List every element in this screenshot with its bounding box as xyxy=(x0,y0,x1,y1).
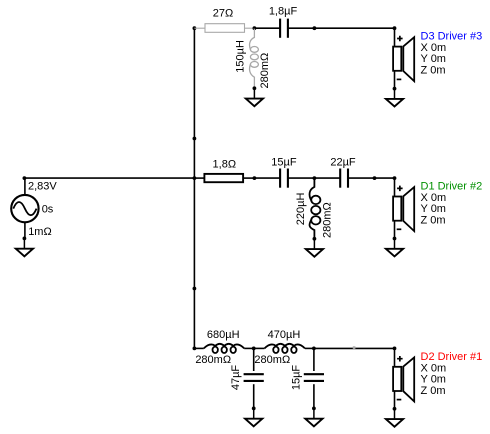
svg-text:Z 0m: Z 0m xyxy=(421,65,446,77)
ground (D3) xyxy=(386,87,403,107)
inductor 150µH (gray) xyxy=(250,28,259,88)
inductor 680µH xyxy=(194,344,253,353)
wire to D2 xyxy=(314,347,395,349)
ground (47µF) xyxy=(245,407,262,427)
node bus a xyxy=(193,137,197,141)
node at source top xyxy=(23,176,27,180)
speaker D3 xyxy=(393,26,415,88)
svg-text:470µH: 470µH xyxy=(268,329,301,341)
speaker D1 xyxy=(393,176,415,238)
svg-text:Z 0m: Z 0m xyxy=(421,215,446,227)
inductor 220µH xyxy=(310,178,321,239)
svg-text:Z 0m: Z 0m xyxy=(421,385,446,397)
svg-text:680µH: 680µH xyxy=(207,329,240,341)
svg-text:D1 Driver #2: D1 Driver #2 xyxy=(421,181,483,193)
svg-text:280mΩ: 280mΩ xyxy=(259,53,271,89)
svg-text:15µF: 15µF xyxy=(271,156,297,168)
capacitor 15µF xyxy=(254,169,314,188)
node between coils xyxy=(252,347,256,351)
wire source to bus xyxy=(24,177,194,179)
node bus top xyxy=(193,26,197,30)
ground (15µF) xyxy=(305,407,322,427)
node after 1,8µF xyxy=(313,26,317,30)
ground (D2) xyxy=(386,407,403,427)
svg-text:280mΩ: 280mΩ xyxy=(195,354,231,366)
node bus c xyxy=(193,287,197,291)
svg-text:15µF: 15µF xyxy=(290,365,302,391)
svg-text:D2 Driver #1: D2 Driver #1 xyxy=(421,351,483,363)
svg-text:150µH: 150µH xyxy=(234,40,246,73)
svg-text:1,8µF: 1,8µF xyxy=(269,6,298,18)
node bus bottom xyxy=(193,347,197,351)
svg-text:0s: 0s xyxy=(42,204,54,216)
node bus b xyxy=(193,176,197,180)
resistor 1,8Ω xyxy=(194,174,254,182)
wire to D1 xyxy=(375,177,395,179)
node after 470µH xyxy=(312,347,316,351)
node after 27Ω xyxy=(253,26,257,30)
svg-text:1,8Ω: 1,8Ω xyxy=(213,159,237,171)
wire main bus xyxy=(193,28,195,348)
ground (D1) xyxy=(386,237,403,257)
svg-text:220µH: 220µH xyxy=(295,193,307,226)
voltage source V1 xyxy=(11,178,38,238)
svg-text:280mΩ: 280mΩ xyxy=(321,202,333,238)
inductor 470µH xyxy=(254,344,314,353)
svg-text:280mΩ: 280mΩ xyxy=(254,354,290,366)
wire to D3 xyxy=(314,27,394,29)
capacitor 15µF shunt xyxy=(304,348,324,408)
svg-text:2,83V: 2,83V xyxy=(28,180,57,192)
ground (220µH) xyxy=(306,237,323,257)
speaker D2 xyxy=(393,347,415,409)
svg-text:Y 0m: Y 0m xyxy=(421,53,446,65)
wire handle mark xyxy=(353,346,356,349)
svg-text:Y 0m: Y 0m xyxy=(421,373,446,385)
node after 22µF xyxy=(373,176,377,180)
svg-text:D3 Driver #3: D3 Driver #3 xyxy=(421,31,483,43)
svg-text:47µF: 47µF xyxy=(230,365,242,391)
ground (150µH) xyxy=(246,86,263,106)
node after 1,8Ω xyxy=(253,176,257,180)
capacitor 1,8µF xyxy=(254,19,314,38)
ground (source) xyxy=(16,237,33,257)
capacitor 22µF xyxy=(314,169,374,188)
svg-text:27Ω: 27Ω xyxy=(213,8,233,20)
capacitor 47µF xyxy=(244,348,264,408)
svg-text:Y 0m: Y 0m xyxy=(421,203,446,215)
resistor 27Ω (gray) xyxy=(194,24,254,33)
svg-text:1mΩ: 1mΩ xyxy=(28,226,52,238)
node mid xyxy=(313,176,317,180)
svg-text:22µF: 22µF xyxy=(330,156,356,168)
